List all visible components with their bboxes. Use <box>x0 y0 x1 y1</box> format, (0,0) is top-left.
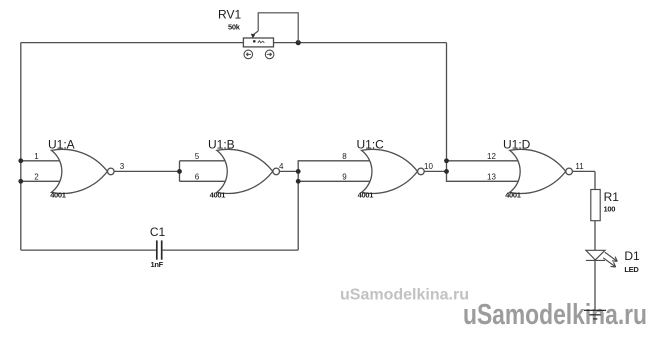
svg-text:4001: 4001 <box>210 190 226 199</box>
svg-text:6: 6 <box>195 173 200 182</box>
svg-text:2: 2 <box>34 173 39 182</box>
svg-text:RV1: RV1 <box>218 7 241 21</box>
svg-text:8: 8 <box>342 152 347 161</box>
svg-text:5: 5 <box>195 152 200 161</box>
svg-text:1nF: 1nF <box>151 260 164 269</box>
svg-text:9: 9 <box>342 173 347 182</box>
svg-text:U1:A: U1:A <box>48 138 75 152</box>
svg-text:4001: 4001 <box>50 190 66 199</box>
svg-text:11: 11 <box>575 162 584 171</box>
svg-text:4: 4 <box>279 162 284 171</box>
svg-text:R1: R1 <box>604 190 620 204</box>
svg-text:100: 100 <box>604 205 616 214</box>
svg-text:4001: 4001 <box>505 190 521 199</box>
svg-text:10: 10 <box>424 162 433 171</box>
svg-text:3: 3 <box>120 162 125 171</box>
svg-text:uSamodelkina.ru: uSamodelkina.ru <box>340 287 469 304</box>
svg-text:D1: D1 <box>624 249 640 263</box>
svg-text:LED: LED <box>624 265 639 274</box>
svg-text:4001: 4001 <box>358 190 374 199</box>
svg-text:1: 1 <box>34 152 39 161</box>
svg-text:50k: 50k <box>228 23 241 32</box>
svg-text:U1:B: U1:B <box>208 138 235 152</box>
svg-text:U1:D: U1:D <box>503 138 531 152</box>
svg-text:12: 12 <box>487 152 496 161</box>
svg-text:U1:C: U1:C <box>357 138 385 152</box>
svg-text:C1: C1 <box>150 225 166 239</box>
svg-text:uSamodelkina.ru: uSamodelkina.ru <box>463 299 647 331</box>
svg-text:13: 13 <box>487 173 496 182</box>
